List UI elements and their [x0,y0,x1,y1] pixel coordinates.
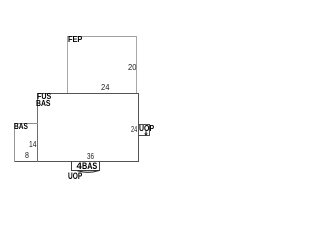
wire: left BAS box left wall [14,123,15,162]
node FEP label [68,36,82,44]
node dimension 8 [25,152,29,160]
wire: bottom box right wall [99,161,100,171]
wire: left BAS box top wall [14,123,38,124]
wire: leader arrows overlay [0,0,250,187]
node dimension 14 [29,141,36,149]
wire: right UOP box top wall [138,124,150,125]
node FUS label [37,93,51,101]
node dimension 24 (right wall) [131,126,137,134]
wire: bottom box bottom wall [71,170,100,171]
wire: FEP top wall [67,36,137,37]
node UOP label (bottom) [68,172,82,182]
wire: FEP right wall [136,36,137,93]
node BAS label (main) [36,100,51,108]
wire: FEP left wall [67,36,68,93]
wire: right UOP box bottom wall [138,135,150,136]
wire: main right wall [138,93,139,162]
node BAS label (bottom box) [82,162,97,172]
wire: main top wall [37,93,139,94]
node dimension 24 (FEP width) [101,84,109,92]
node leader arrow (right UOP) [144,131,148,136]
node dimension 36 [87,153,94,161]
wire: main bottom wall [14,161,139,162]
node UOP label (right) [139,125,154,133]
wire: right UOP box right wall [149,124,150,136]
node BAS label (left box) [14,123,28,131]
wire: bottom box left wall [71,161,72,171]
wire: main left wall divider [37,93,38,162]
node leader arc (bottom UOP) [77,171,99,173]
node dimension 20 [128,64,136,72]
node dimension 4 (bottom box) [77,162,82,172]
